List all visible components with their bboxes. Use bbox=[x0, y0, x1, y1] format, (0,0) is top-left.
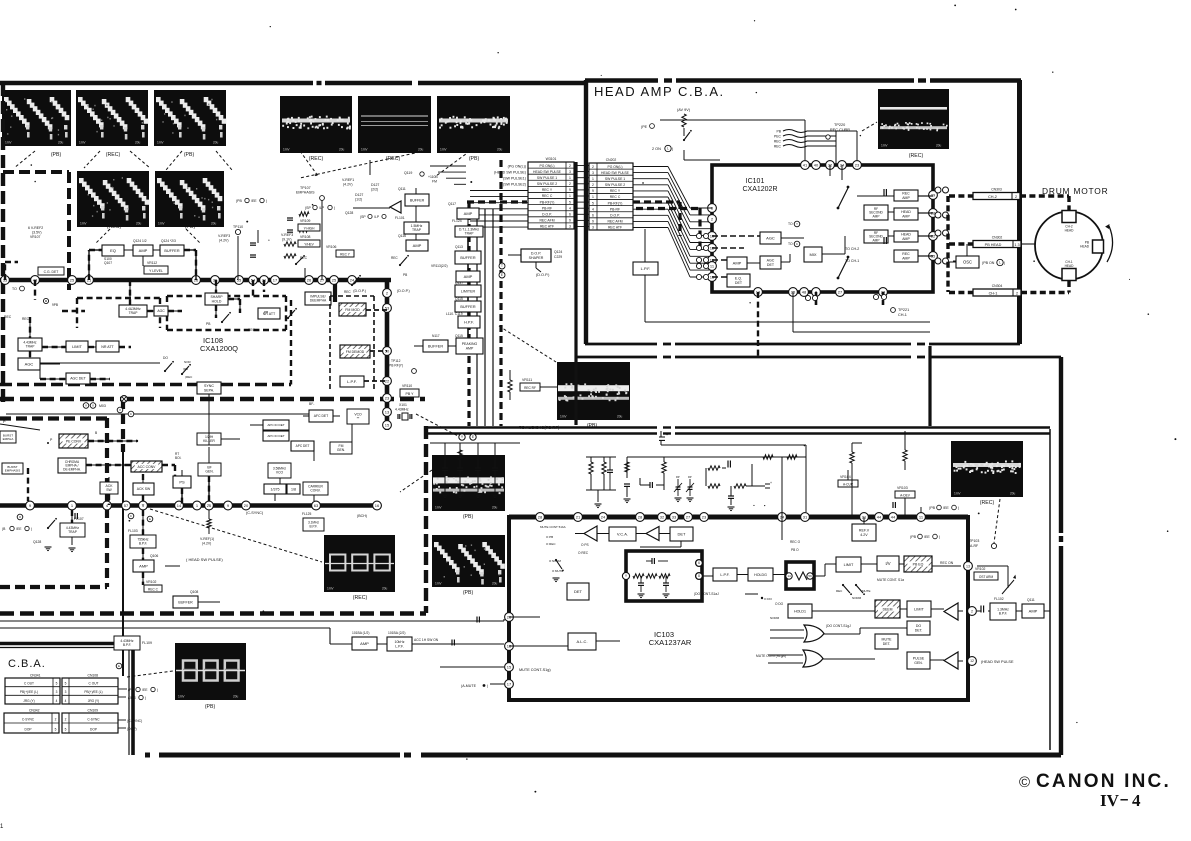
svg-text:Y LEVEL: Y LEVEL bbox=[149, 269, 163, 273]
svg-text:(PB): (PB) bbox=[469, 156, 480, 162]
svg-text:101BA (2/2): 101BA (2/2) bbox=[388, 631, 405, 635]
svg-text:VR112: VR112 bbox=[147, 261, 157, 265]
svg-text:CXA1202R: CXA1202R bbox=[742, 186, 777, 193]
svg-text:BOI.: BOI. bbox=[175, 456, 181, 460]
svg-text:V-REF3: V-REF3 bbox=[218, 234, 230, 238]
svg-text:PB: PB bbox=[264, 310, 268, 314]
svg-text:VR102: VR102 bbox=[975, 567, 985, 571]
svg-text:(4.2V): (4.2V) bbox=[343, 183, 353, 187]
svg-text:50: 50 bbox=[385, 348, 390, 353]
svg-text:5: 5 bbox=[569, 200, 571, 204]
svg-text:DET: DET bbox=[735, 281, 743, 285]
svg-text:24: 24 bbox=[601, 514, 606, 519]
svg-text:EMPHASIS: EMPHASIS bbox=[296, 191, 315, 195]
svg-text:X: X bbox=[92, 404, 94, 408]
svg-text:(2/2): (2/2) bbox=[371, 188, 378, 192]
svg-text:26: 26 bbox=[307, 277, 312, 282]
svg-text:/LP: /LP bbox=[374, 215, 380, 219]
svg-text:(PB): (PB) bbox=[463, 514, 474, 520]
svg-text:LIMIT: LIMIT bbox=[914, 607, 924, 611]
svg-text:1mV: 1mV bbox=[5, 141, 12, 145]
svg-text:V.C.A.: V.C.A. bbox=[617, 531, 628, 536]
svg-text:AMP: AMP bbox=[902, 196, 910, 200]
svg-text:DO: DO bbox=[163, 356, 168, 360]
svg-text:(C-SYNC): (C-SYNC) bbox=[246, 511, 264, 515]
svg-text:REC C: REC C bbox=[148, 588, 159, 592]
svg-text:TO CH-2: TO CH-2 bbox=[845, 247, 859, 251]
svg-text:REC: REC bbox=[774, 140, 782, 144]
svg-text:PB O: PB O bbox=[791, 548, 799, 552]
svg-text:SW PULSE 2: SW PULSE 2 bbox=[537, 182, 557, 186]
svg-text:SEPA.: SEPA. bbox=[204, 388, 214, 392]
svg-text:AMP: AMP bbox=[139, 563, 148, 568]
svg-text:2: 2 bbox=[569, 164, 571, 168]
svg-text:HEAD: HEAD bbox=[1080, 244, 1090, 248]
svg-text:Q111: Q111 bbox=[1027, 598, 1035, 602]
svg-text:APC ID DET: APC ID DET bbox=[267, 423, 284, 427]
svg-text:C-SYNC: C-SYNC bbox=[87, 718, 100, 722]
svg-text:O REC: O REC bbox=[546, 542, 556, 546]
svg-text:Y/HEV: Y/HEV bbox=[304, 243, 314, 247]
svg-text:C.B.A.: C.B.A. bbox=[8, 658, 46, 670]
svg-text:VR102: VR102 bbox=[146, 580, 156, 584]
svg-text:6: 6 bbox=[592, 213, 594, 217]
svg-text:1: 1 bbox=[569, 194, 571, 198]
svg-text:MUTE CONT-S1g): MUTE CONT-S1g) bbox=[519, 668, 551, 672]
svg-text:(SP: (SP bbox=[360, 215, 366, 219]
svg-text:4.2V: 4.2V bbox=[860, 533, 868, 537]
svg-text:AMP: AMP bbox=[902, 237, 910, 241]
svg-text:14: 14 bbox=[787, 574, 791, 578]
svg-text:(PB): (PB) bbox=[51, 152, 62, 158]
svg-text:26: 26 bbox=[207, 503, 212, 508]
svg-text:NR ATT: NR ATT bbox=[101, 345, 114, 349]
svg-text:TP220: TP220 bbox=[834, 123, 845, 127]
svg-text:REC Y: REC Y bbox=[542, 188, 553, 192]
svg-text:APC ID DET: APC ID DET bbox=[267, 434, 284, 438]
svg-text:BF-: BF- bbox=[309, 402, 314, 406]
svg-text:EQ: EQ bbox=[110, 248, 116, 253]
svg-text:GEN.: GEN. bbox=[914, 661, 923, 665]
svg-text:1: 1 bbox=[592, 177, 594, 181]
svg-text:DET.: DET. bbox=[883, 642, 891, 646]
svg-text:1mV: 1mV bbox=[881, 144, 888, 148]
svg-text:41: 41 bbox=[803, 162, 808, 167]
svg-text:(REC): (REC) bbox=[980, 500, 995, 506]
svg-text:JRG (Y): JRG (Y) bbox=[23, 699, 35, 703]
svg-text:O DO: O DO bbox=[764, 597, 773, 601]
svg-text:/EE: /EE bbox=[16, 527, 22, 531]
svg-text:V-REF1: V-REF1 bbox=[342, 178, 354, 182]
svg-text:): ) bbox=[31, 527, 32, 531]
svg-text:20u: 20u bbox=[418, 148, 424, 152]
svg-text:BUFFER: BUFFER bbox=[460, 256, 475, 260]
svg-text:AMP: AMP bbox=[139, 248, 148, 253]
svg-text:4: 4 bbox=[56, 699, 58, 703]
svg-text:4: 4 bbox=[1132, 791, 1141, 810]
svg-text:(SW PULSE1): (SW PULSE1) bbox=[503, 177, 526, 181]
svg-text:(9.1V): (9.1V) bbox=[282, 238, 292, 242]
svg-text:AMP: AMP bbox=[873, 238, 880, 242]
svg-text:BUFFER: BUFFER bbox=[460, 305, 475, 309]
svg-text:N117: N117 bbox=[432, 334, 440, 338]
svg-text:25: 25 bbox=[332, 277, 337, 282]
svg-text:Q116: Q116 bbox=[398, 234, 406, 238]
svg-text:PB-RF(Y): PB-RF(Y) bbox=[540, 200, 555, 204]
svg-text:(PB: (PB bbox=[128, 688, 134, 692]
svg-text:40: 40 bbox=[814, 162, 819, 167]
svg-text:29: 29 bbox=[931, 192, 936, 197]
svg-text:20u: 20u bbox=[136, 222, 142, 226]
svg-text:(PB: (PB bbox=[910, 535, 917, 539]
svg-text:REC C: REC C bbox=[542, 194, 553, 198]
svg-text:1mV: 1mV bbox=[178, 695, 185, 699]
svg-text:TP221: TP221 bbox=[898, 308, 909, 312]
svg-text:17: 17 bbox=[507, 681, 512, 686]
svg-text:O PS: O PS bbox=[581, 543, 589, 547]
svg-text:20u: 20u bbox=[1010, 492, 1016, 496]
svg-text:T: T bbox=[501, 264, 503, 268]
svg-text:A-DEV: A-DEV bbox=[900, 494, 911, 498]
svg-text:SW PULSE 2: SW PULSE 2 bbox=[605, 183, 625, 187]
svg-text:I/V: I/V bbox=[885, 561, 890, 566]
svg-text:(REC: (REC bbox=[185, 375, 193, 379]
svg-text:(PB: (PB bbox=[236, 199, 243, 203]
svg-text:TRAP: TRAP bbox=[68, 530, 78, 534]
svg-text:Q124: Q124 bbox=[554, 250, 562, 254]
svg-text:FL109: FL109 bbox=[142, 641, 152, 645]
svg-text:LIMITER: LIMITER bbox=[461, 289, 476, 293]
svg-text:20u: 20u bbox=[617, 415, 623, 419]
svg-text:Q115: Q115 bbox=[455, 334, 463, 338]
svg-text:1/375: 1/375 bbox=[271, 487, 280, 491]
svg-text:TP112: TP112 bbox=[391, 359, 401, 363]
svg-text:DE-EMPHA.: DE-EMPHA. bbox=[63, 467, 81, 471]
svg-text:3: 3 bbox=[592, 171, 594, 175]
svg-text:Q128: Q128 bbox=[345, 211, 353, 215]
svg-text:AMP: AMP bbox=[464, 274, 473, 279]
svg-text:C-SYNC: C-SYNC bbox=[22, 718, 35, 722]
svg-text:3: 3 bbox=[569, 170, 571, 174]
svg-text:RP: RP bbox=[688, 475, 692, 479]
svg-text:AMP: AMP bbox=[873, 214, 880, 218]
svg-text:23: 23 bbox=[855, 162, 860, 167]
svg-text:(REC): (REC) bbox=[106, 152, 121, 158]
svg-text:–: – bbox=[1120, 791, 1128, 808]
svg-text:): ) bbox=[958, 506, 959, 510]
svg-text:CN341: CN341 bbox=[30, 674, 41, 678]
svg-text:28: 28 bbox=[538, 514, 543, 519]
svg-text:1mV: 1mV bbox=[157, 141, 164, 145]
svg-text:VR104: VR104 bbox=[840, 475, 851, 479]
svg-text:): ) bbox=[334, 206, 335, 210]
svg-text:RP: RP bbox=[676, 475, 680, 479]
svg-text:(BCH): (BCH) bbox=[357, 514, 367, 518]
svg-text:SHAPER: SHAPER bbox=[529, 256, 544, 260]
svg-text:DET.: DET. bbox=[915, 628, 923, 632]
svg-text:AFC DET: AFC DET bbox=[314, 414, 329, 418]
svg-text:BUFFER: BUFFER bbox=[410, 198, 425, 202]
svg-text:SW: SW bbox=[106, 488, 112, 492]
svg-text:REC: REC bbox=[774, 145, 782, 149]
svg-text:CN108: CN108 bbox=[88, 674, 99, 678]
svg-text:(SW PULSE2): (SW PULSE2) bbox=[503, 183, 526, 187]
svg-text:PB: PB bbox=[776, 130, 781, 134]
svg-text:CH-2: CH-2 bbox=[988, 195, 997, 199]
svg-text:Q124 *2/3: Q124 *2/3 bbox=[161, 239, 176, 243]
svg-text:32: 32 bbox=[660, 514, 665, 519]
svg-text:CN202: CN202 bbox=[606, 158, 617, 162]
svg-text:EMPHASIS: EMPHASIS bbox=[5, 468, 21, 472]
svg-text:12: 12 bbox=[970, 659, 974, 663]
svg-text:HEAD SW PULSE: HEAD SW PULSE bbox=[601, 171, 630, 175]
svg-text:1mV: 1mV bbox=[327, 587, 334, 591]
svg-text:4.43MHz: 4.43MHz bbox=[395, 408, 409, 412]
svg-text:Q111: Q111 bbox=[398, 187, 406, 191]
svg-text:1mV: 1mV bbox=[79, 141, 86, 145]
svg-text:BUFFER: BUFFER bbox=[164, 249, 179, 253]
svg-text:CN342: CN342 bbox=[29, 709, 40, 713]
svg-text:15: 15 bbox=[385, 422, 390, 427]
svg-text:C OUT: C OUT bbox=[24, 682, 34, 686]
svg-text:VR103: VR103 bbox=[897, 486, 908, 490]
svg-text:14: 14 bbox=[177, 503, 182, 508]
svg-text:20u: 20u bbox=[936, 144, 942, 148]
svg-text:CN302: CN302 bbox=[992, 236, 1003, 240]
svg-text:PE CONV: PE CONV bbox=[66, 440, 82, 444]
svg-text:HEAD AMP C.B.A.: HEAD AMP C.B.A. bbox=[594, 84, 725, 99]
svg-text:TRAP: TRAP bbox=[129, 311, 139, 315]
svg-text:CH-1: CH-1 bbox=[989, 291, 998, 295]
svg-text:27: 27 bbox=[686, 514, 691, 519]
svg-text:A.L.C.: A.L.C. bbox=[576, 639, 587, 644]
svg-text:(D.O.P.): (D.O.P.) bbox=[353, 289, 366, 293]
svg-text:Q106: Q106 bbox=[150, 554, 158, 558]
svg-text:OSC: OSC bbox=[963, 259, 972, 264]
svg-text:(PB): (PB) bbox=[184, 152, 195, 158]
svg-text:Y: Y bbox=[796, 222, 798, 226]
svg-text:6 V-REF2: 6 V-REF2 bbox=[28, 226, 43, 230]
svg-text:(D.O.P.): (D.O.P.) bbox=[536, 273, 550, 277]
svg-text:5: 5 bbox=[592, 201, 594, 205]
svg-text:(PE: (PE bbox=[641, 125, 648, 129]
svg-text:Q128: Q128 bbox=[33, 540, 41, 544]
svg-text:H.P.F.: H.P.F. bbox=[464, 320, 474, 324]
svg-text:C229: C229 bbox=[554, 255, 562, 259]
svg-text:NOR: NOR bbox=[184, 360, 192, 364]
svg-text:ACC 1H SW ON: ACC 1H SW ON bbox=[414, 638, 439, 642]
svg-text:(REC): (REC) bbox=[309, 156, 324, 162]
svg-text:L: L bbox=[999, 261, 1001, 265]
svg-text:(PB): (PB) bbox=[463, 590, 474, 596]
svg-text:FM: FM bbox=[432, 180, 437, 184]
svg-text:(4.2V): (4.2V) bbox=[202, 542, 211, 546]
svg-text:AMP: AMP bbox=[464, 211, 473, 216]
svg-text:(JRG: (JRG bbox=[128, 696, 136, 700]
svg-text:PB HEAD: PB HEAD bbox=[985, 243, 1002, 247]
svg-text:REC: REC bbox=[4, 315, 12, 319]
svg-text:TRAP: TRAP bbox=[412, 228, 422, 232]
svg-text:HEAD: HEAD bbox=[1065, 228, 1075, 232]
svg-text:REC: REC bbox=[344, 290, 351, 294]
svg-text:REC ON: REC ON bbox=[940, 561, 954, 565]
svg-text:5: 5 bbox=[56, 682, 58, 686]
svg-text:DET: DET bbox=[678, 531, 687, 536]
svg-text:3: 3 bbox=[56, 690, 58, 694]
svg-text:FM DEMOD: FM DEMOD bbox=[346, 350, 365, 354]
svg-text:REC: REC bbox=[22, 317, 30, 321]
svg-text:9PB: 9PB bbox=[52, 303, 58, 307]
svg-text:X101: X101 bbox=[399, 403, 407, 407]
svg-text:AMP: AMP bbox=[902, 214, 910, 218]
svg-text:FL101: FL101 bbox=[395, 216, 405, 220]
svg-text:D127: D127 bbox=[355, 193, 363, 197]
svg-text:MUTE CONT. S1a: MUTE CONT. S1a bbox=[877, 578, 904, 582]
svg-text:PB(+)/EE (L): PB(+)/EE (L) bbox=[20, 690, 38, 694]
svg-text:(D.O.P.): (D.O.P.) bbox=[397, 289, 410, 293]
svg-text:23: 23 bbox=[385, 395, 390, 400]
svg-text:FL125: FL125 bbox=[302, 512, 312, 516]
svg-text:IC101: IC101 bbox=[746, 178, 765, 185]
svg-text:NORM: NORM bbox=[770, 616, 780, 620]
svg-text:4: 4 bbox=[65, 699, 67, 703]
svg-text:(PG ON(L)): (PG ON(L)) bbox=[508, 164, 526, 168]
svg-text:FM MOD: FM MOD bbox=[345, 308, 360, 312]
svg-text:20u: 20u bbox=[492, 582, 498, 586]
svg-text:REC ATF: REC ATF bbox=[608, 226, 622, 230]
svg-text:V: V bbox=[85, 404, 87, 408]
svg-text:MUTE CONT 51bA: MUTE CONT 51bA bbox=[540, 525, 566, 529]
svg-text:(PB: (PB bbox=[929, 506, 936, 510]
svg-text:Q117: Q117 bbox=[448, 202, 456, 206]
svg-text:Q113: Q113 bbox=[455, 245, 463, 249]
svg-text:TP107: TP107 bbox=[300, 186, 311, 190]
svg-text:17: 17 bbox=[273, 277, 278, 282]
svg-text:ACC CONV: ACC CONV bbox=[138, 465, 157, 469]
svg-text:13: 13 bbox=[966, 564, 970, 568]
svg-text:4: 4 bbox=[592, 207, 594, 211]
svg-text:C.G. DET: C.G. DET bbox=[44, 270, 59, 274]
svg-text:TO CH-1: TO CH-1 bbox=[845, 259, 859, 263]
svg-text:O REC: O REC bbox=[578, 551, 589, 555]
svg-text:VR109: VR109 bbox=[300, 219, 310, 223]
svg-text:VCO: VCO bbox=[276, 471, 284, 475]
svg-text:B.P.F.: B.P.F. bbox=[123, 643, 131, 647]
svg-text:20: 20 bbox=[244, 503, 249, 508]
svg-text:PG ON(L): PG ON(L) bbox=[607, 165, 622, 169]
svg-text:TRAP: TRAP bbox=[26, 345, 36, 349]
svg-text:1: 1 bbox=[569, 176, 571, 180]
svg-text:59: 59 bbox=[808, 574, 812, 578]
svg-text:): ) bbox=[487, 684, 488, 688]
svg-text:MUTE: MUTE bbox=[862, 589, 871, 593]
svg-text:PEC: PEC bbox=[774, 135, 782, 139]
svg-text:(REC): (REC) bbox=[909, 153, 924, 159]
svg-text:PS: PS bbox=[179, 479, 185, 484]
svg-text:GEN.: GEN. bbox=[205, 470, 213, 474]
svg-text:(HEAD SW PULSE): (HEAD SW PULSE) bbox=[494, 170, 526, 174]
svg-text:(A-MUTE: (A-MUTE bbox=[461, 684, 477, 688]
svg-text:1mV: 1mV bbox=[435, 506, 442, 510]
svg-text:CANON INC.: CANON INC. bbox=[1036, 771, 1171, 792]
svg-text:PB(+)/EE (L): PB(+)/EE (L) bbox=[84, 690, 102, 694]
svg-text:AGC: AGC bbox=[25, 361, 34, 366]
svg-text:HOLD1: HOLD1 bbox=[794, 609, 806, 613]
svg-text:6: 6 bbox=[698, 561, 700, 565]
svg-text:REC AFM: REC AFM bbox=[539, 219, 554, 223]
svg-text:1 3: 1 3 bbox=[1014, 243, 1019, 247]
svg-text:20u: 20u bbox=[58, 141, 64, 145]
svg-text:1mV: 1mV bbox=[80, 222, 87, 226]
svg-text:(AV 9V): (AV 9V) bbox=[677, 108, 691, 112]
svg-text:JRG (Y): JRG (Y) bbox=[88, 699, 100, 703]
svg-text:AMP: AMP bbox=[413, 243, 422, 248]
svg-text:DET: DET bbox=[767, 263, 775, 267]
svg-text:HEAD: HEAD bbox=[1065, 264, 1075, 268]
svg-text:(HEAD SW PULSE: (HEAD SW PULSE bbox=[981, 660, 1014, 664]
svg-text:AGC DET: AGC DET bbox=[70, 377, 86, 381]
svg-text:20u: 20u bbox=[211, 222, 217, 226]
svg-text:VR107: VR107 bbox=[30, 235, 40, 239]
svg-text:9: 9 bbox=[592, 220, 594, 224]
svg-text:16: 16 bbox=[375, 503, 380, 508]
svg-text:2: 2 bbox=[971, 609, 973, 613]
svg-text:Q107: Q107 bbox=[104, 261, 112, 265]
svg-text:(C-SYNC): (C-SYNC) bbox=[127, 719, 142, 723]
svg-text:D.O.P.: D.O.P. bbox=[542, 212, 552, 216]
svg-text:PG ON(L): PG ON(L) bbox=[539, 164, 554, 168]
svg-text:REC ATF: REC ATF bbox=[540, 225, 554, 229]
svg-text:NORM: NORM bbox=[852, 596, 862, 600]
svg-text:VR111: VR111 bbox=[522, 378, 532, 382]
svg-text:O NORM: O NORM bbox=[549, 559, 561, 563]
svg-text:DET: DET bbox=[574, 589, 583, 594]
svg-text:FL103: FL103 bbox=[128, 529, 138, 533]
svg-text:(PB: (PB bbox=[183, 367, 188, 371]
svg-text:REC: REC bbox=[248, 328, 256, 332]
svg-text:AMP: AMP bbox=[733, 260, 742, 265]
svg-text:44: 44 bbox=[877, 514, 882, 519]
svg-text:1: 1 bbox=[592, 195, 594, 199]
svg-text:/EE: /EE bbox=[142, 688, 148, 692]
svg-text:DOP: DOP bbox=[25, 728, 32, 732]
svg-text:REC CURR: REC CURR bbox=[830, 128, 850, 132]
svg-text:PB-RF: PB-RF bbox=[542, 206, 552, 210]
svg-text:28: 28 bbox=[638, 514, 643, 519]
svg-text:23: 23 bbox=[702, 514, 707, 519]
svg-text:AMP: AMP bbox=[360, 641, 369, 646]
svg-text:REC Y: REC Y bbox=[610, 189, 621, 193]
svg-text:AMP: AMP bbox=[902, 256, 910, 260]
svg-text:Q108: Q108 bbox=[190, 590, 198, 594]
svg-text:VR106: VR106 bbox=[326, 245, 336, 249]
svg-text:L.P.F.: L.P.F. bbox=[347, 379, 357, 384]
svg-text:REC AFM: REC AFM bbox=[607, 220, 622, 224]
svg-text:TRAP: TRAP bbox=[465, 232, 475, 236]
svg-text:D127: D127 bbox=[371, 183, 379, 187]
svg-text:20u: 20u bbox=[382, 587, 388, 591]
svg-text:PB: PB bbox=[403, 273, 407, 277]
svg-text:(REC): (REC) bbox=[353, 595, 368, 601]
svg-text:W3101: W3101 bbox=[546, 157, 557, 161]
svg-text:Y-HIGH: Y-HIGH bbox=[304, 227, 316, 231]
svg-text:HEAD SW PULSE: HEAD SW PULSE bbox=[533, 170, 562, 174]
svg-text:/EE: /EE bbox=[251, 199, 257, 203]
svg-text:20u: 20u bbox=[492, 506, 498, 510]
svg-text:+110B: +110B bbox=[428, 175, 438, 179]
svg-text:OST ARM: OST ARM bbox=[979, 575, 994, 579]
svg-text:20u: 20u bbox=[135, 141, 141, 145]
